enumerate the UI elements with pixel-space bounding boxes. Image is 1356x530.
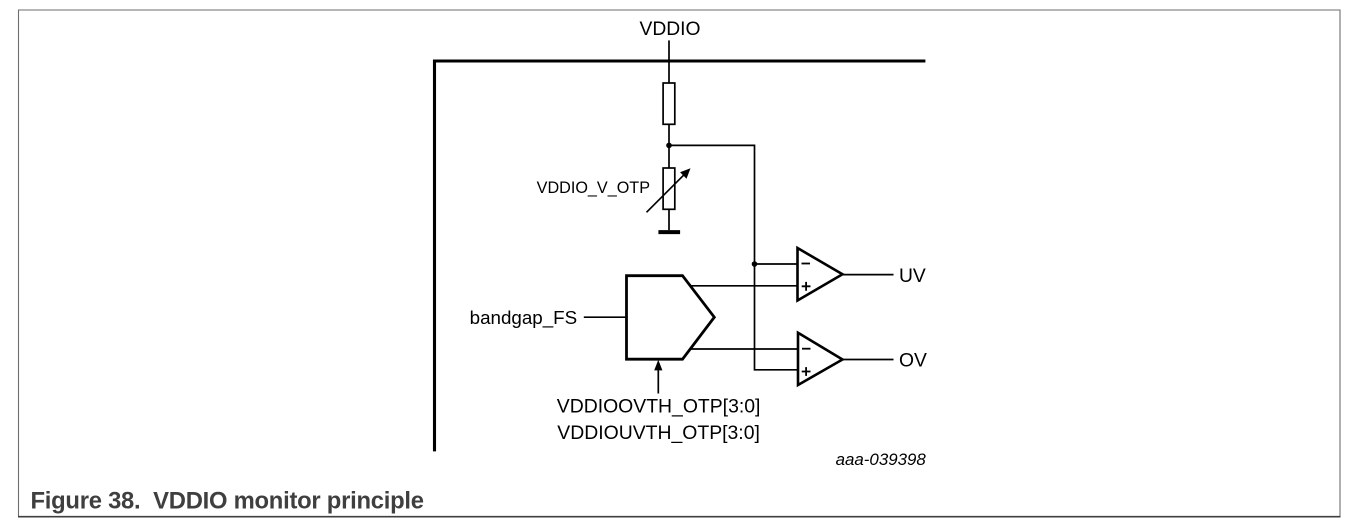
svg-text:VDDIOOVTH_OTP[3:0]: VDDIOOVTH_OTP[3:0] (557, 395, 761, 417)
svg-text:Figure 38. VDDIO monitor prin: Figure 38. VDDIO monitor principle (31, 488, 424, 515)
svg-text:VDDIO: VDDIO (639, 19, 700, 40)
svg-text:VDDIO_V_OTP: VDDIO_V_OTP (537, 179, 650, 197)
svg-text:aaa-039398: aaa-039398 (836, 450, 927, 469)
svg-text:UV: UV (899, 266, 926, 287)
svg-text:OV: OV (899, 351, 927, 372)
svg-text:bandgap_FS: bandgap_FS (470, 307, 578, 329)
svg-text:VDDIOUVTH_OTP[3:0]: VDDIOUVTH_OTP[3:0] (557, 422, 760, 444)
